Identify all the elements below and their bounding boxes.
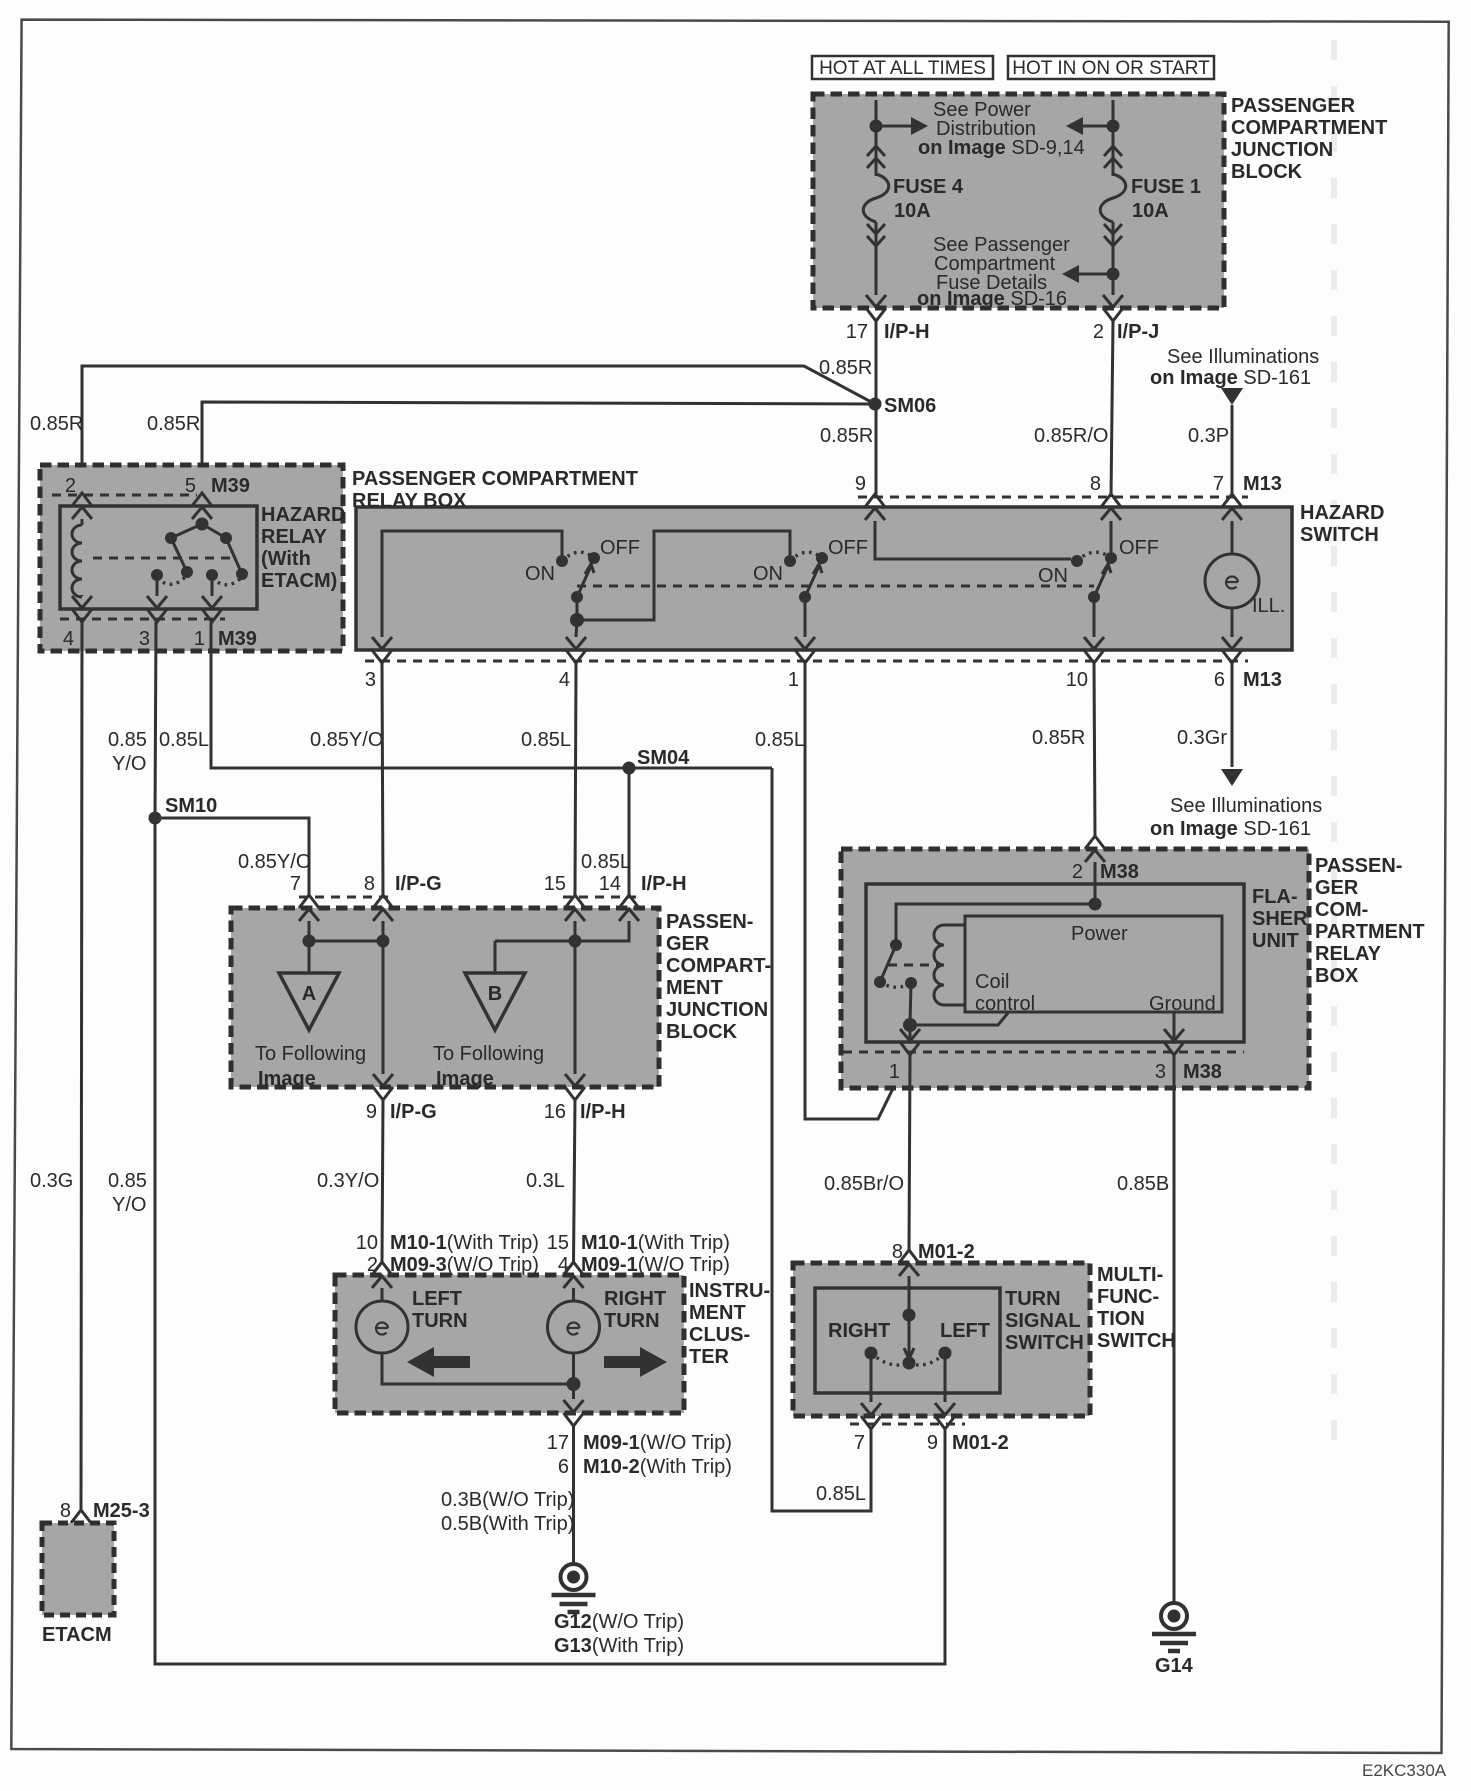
wire I/P-H 16 to cluster (0.3L) <box>574 1100 576 1262</box>
left arrow symbol <box>407 1347 470 1377</box>
jb connector dashed line pins 15-14 <box>563 896 639 899</box>
svg-text:Power: Power <box>1071 923 1128 945</box>
svg-text:I/P-G: I/P-G <box>390 1101 437 1123</box>
tss dotted arc right <box>871 1353 909 1365</box>
sw3 dotted arc <box>1077 552 1111 561</box>
right turn indicator lamp <box>548 1301 600 1353</box>
jb wire pin8 through <box>382 921 385 1074</box>
svg-text:Coil: Coil <box>975 971 1009 993</box>
relay pin 4 connector <box>72 596 92 608</box>
svg-text:LEFT: LEFT <box>412 1288 462 1310</box>
svg-text:0.85: 0.85 <box>108 729 147 751</box>
svg-text:9: 9 <box>366 1101 377 1123</box>
svg-text:on Image SD-161: on Image SD-161 <box>1150 367 1311 389</box>
triangle destination A <box>308 941 311 973</box>
switch mechanical dashed link <box>577 585 1094 588</box>
arrow left to See Power Distribution <box>1080 125 1113 128</box>
label box HOT IN ON OR START <box>1008 56 1214 79</box>
svg-text:0.3G: 0.3G <box>30 1170 73 1192</box>
flasher pin 2 connector <box>1085 836 1105 849</box>
wire fuse4 feed vertical <box>875 100 878 176</box>
svg-text:M10-1(With Trip): M10-1(With Trip) <box>581 1232 730 1254</box>
tss blade <box>908 1315 911 1356</box>
relay pin 3 connector <box>147 596 167 608</box>
relay contact stub left <box>171 524 202 538</box>
wire SM04 to junction block pin 14 <box>628 768 631 895</box>
svg-text:RELAY BOX: RELAY BOX <box>352 490 467 512</box>
wire fuse4 to pin 17 <box>875 222 878 295</box>
relay pin 5 connector <box>192 493 212 506</box>
flasher pin 3 connector <box>1164 1029 1184 1041</box>
wire switch pin6 illumination out (0.3Gr) <box>1231 663 1234 767</box>
svg-text:0.85L: 0.85L <box>581 851 631 873</box>
svg-text:0.85R: 0.85R <box>819 357 872 379</box>
switch pin 10 connector <box>1084 637 1104 649</box>
svg-text:7: 7 <box>290 873 301 895</box>
svg-text:2: 2 <box>1072 861 1083 883</box>
flasher mech dashed link <box>888 964 941 967</box>
jb node bus 7-8 <box>309 940 383 943</box>
svg-text:GER: GER <box>666 933 710 955</box>
svg-text:10: 10 <box>1066 669 1088 691</box>
splice SM10 <box>149 812 162 825</box>
tss pin 9 connector <box>935 1403 955 1415</box>
wire sw1 junction to section2 <box>577 531 790 620</box>
svg-text:HAZARD: HAZARD <box>261 504 345 526</box>
svg-text:BOX: BOX <box>1315 965 1359 987</box>
jb pin 7 connector <box>299 895 319 908</box>
cluster lamp common bus <box>382 1353 574 1384</box>
svg-text:MULTI-: MULTI- <box>1097 1264 1163 1286</box>
svg-text:M13: M13 <box>1243 669 1282 691</box>
svg-text:0.85R: 0.85R <box>30 413 83 435</box>
svg-text:I/P-G: I/P-G <box>395 873 442 895</box>
arrow from illumination feed <box>1221 388 1243 405</box>
svg-text:SM04: SM04 <box>637 747 690 769</box>
flasher unit case <box>866 884 1244 1042</box>
svg-text:10A: 10A <box>1132 200 1169 222</box>
flasher power junction dot <box>1089 898 1102 911</box>
wire cluster to ground G12/G13 <box>572 1426 575 1563</box>
svg-text:1: 1 <box>889 1061 900 1083</box>
jb pin 8 connector <box>373 895 393 908</box>
cluster pin 10/2 connector <box>372 1262 392 1275</box>
wire SM10 long run down and right to multifunction pin 9 <box>155 818 945 1664</box>
passenger compartment junction block (fuse box) <box>813 94 1224 308</box>
svg-text:16: 16 <box>544 1101 566 1123</box>
wire switch pin3 to junction block pin 8 (0.85Y/O) <box>382 663 383 895</box>
svg-text:ETACM): ETACM) <box>261 570 337 592</box>
svg-text:JUNCTION: JUNCTION <box>1231 139 1333 161</box>
ground G12/G13 <box>561 1564 587 1590</box>
svg-text:TER: TER <box>689 1346 730 1368</box>
flasher module box <box>965 916 1222 1012</box>
svg-text:6: 6 <box>1214 669 1225 691</box>
svg-text:0.5B(With Trip): 0.5B(With Trip) <box>441 1513 574 1535</box>
svg-text:1: 1 <box>788 669 799 691</box>
wire switch pin4 to junction block pin 15 (0.85L) <box>575 663 576 895</box>
relay wire contact1 down <box>211 581 214 596</box>
svg-text:Image: Image <box>258 1068 316 1090</box>
fuse F1 connector chevrons top <box>1104 146 1122 156</box>
fuse F4 connector chevrons bottom <box>867 224 885 234</box>
svg-text:0.85R: 0.85R <box>147 413 200 435</box>
jb connector dashed line pins 7-8 <box>299 896 393 899</box>
hazard switch grey box <box>356 507 1292 650</box>
svg-text:10: 10 <box>356 1232 378 1254</box>
svg-text:0.3B(W/O Trip): 0.3B(W/O Trip) <box>441 1489 574 1511</box>
svg-text:M01-2: M01-2 <box>952 1432 1009 1454</box>
svg-text:RELAY: RELAY <box>261 526 328 548</box>
svg-text:CLUS-: CLUS- <box>689 1324 750 1346</box>
svg-text:M10-1(With Trip): M10-1(With Trip) <box>390 1232 539 1254</box>
cluster bus junction dot <box>567 1377 581 1391</box>
svg-text:on Image SD-16: on Image SD-16 <box>917 288 1067 310</box>
connector pin 2 I/P-J at block edge <box>1103 295 1123 307</box>
svg-text:9: 9 <box>927 1432 938 1454</box>
svg-text:PARTMENT: PARTMENT <box>1315 921 1425 943</box>
switch pin 7 connector <box>1222 494 1242 507</box>
svg-text:M38: M38 <box>1100 861 1139 883</box>
relay pin 2 connector <box>72 493 92 506</box>
svg-text:M38: M38 <box>1183 1061 1222 1083</box>
sw1 blade <box>577 566 591 597</box>
wire I/P-G 9 to cluster (0.3Y/O) <box>382 1100 383 1262</box>
svg-text:FUSE 4: FUSE 4 <box>893 176 964 198</box>
svg-text:SWITCH: SWITCH <box>1300 524 1379 546</box>
svg-text:I/P-H: I/P-H <box>641 873 687 895</box>
svg-text:E2KC330A: E2KC330A <box>1362 1761 1447 1780</box>
right turn lamp feed <box>572 1288 575 1301</box>
svg-text:COM-: COM- <box>1315 899 1368 921</box>
wire sw1 junction down to pin 4 <box>576 620 577 637</box>
switch pin 4 connector <box>566 637 586 649</box>
svg-text:M09-1(W/O Trip): M09-1(W/O Trip) <box>583 1432 732 1454</box>
tss pin 8 connector <box>899 1250 919 1263</box>
relay dotted arc left <box>157 575 187 584</box>
splice SM04 <box>623 762 636 775</box>
left turn lamp feed <box>381 1288 384 1301</box>
flasher armature blade <box>880 945 896 982</box>
flasher power rail to contact <box>896 904 1095 945</box>
jb wire pin7 to node <box>308 921 311 941</box>
svg-text:3: 3 <box>1155 1061 1166 1083</box>
svg-text:I/P-H: I/P-H <box>884 321 930 343</box>
svg-text:0.85B: 0.85B <box>1117 1173 1169 1195</box>
svg-text:COMPARTMENT: COMPARTMENT <box>1231 117 1387 139</box>
sw3 OFF contact <box>1105 552 1117 564</box>
svg-text:0.85R: 0.85R <box>820 425 873 447</box>
svg-text:2: 2 <box>65 475 76 497</box>
svg-text:Image: Image <box>436 1068 494 1090</box>
svg-text:8: 8 <box>364 873 375 895</box>
sw3 OFF contact feed from pin 8 <box>1110 521 1113 552</box>
fuse F1 connector chevrons bottom <box>1104 224 1122 234</box>
flasher connector dashed line bottom <box>843 1051 1244 1054</box>
scan artifact streak <box>1331 40 1337 1450</box>
sw1 dotted arc <box>562 552 594 561</box>
svg-text:0.85Y/O: 0.85Y/O <box>238 851 311 873</box>
illumination lamp feed <box>1231 521 1234 555</box>
instrument cluster grey box <box>335 1275 684 1413</box>
svg-text:0.3Y/O: 0.3Y/O <box>317 1170 379 1192</box>
wire relay pin3 down to SM10 <box>155 622 156 818</box>
turn signal switch case <box>815 1288 1000 1393</box>
svg-text:SWITCH: SWITCH <box>1005 1332 1084 1354</box>
svg-text:8: 8 <box>1090 473 1101 495</box>
multifunction switch grey box <box>793 1263 1090 1416</box>
relay common feed <box>201 519 204 524</box>
svg-text:HOT AT ALL TIMES: HOT AT ALL TIMES <box>819 58 986 79</box>
wire I/P-H 17 down to SM06 and hazard switch pin 9 <box>875 321 878 497</box>
wire SM06 branch to hazard relay pin 5 (0.85R) <box>202 402 875 495</box>
svg-text:See Illuminations: See Illuminations <box>1170 795 1322 817</box>
sw3 blade <box>1094 566 1108 597</box>
svg-text:ON: ON <box>1038 565 1068 587</box>
svg-text:5: 5 <box>185 475 196 497</box>
switch pin 8 connector <box>1101 494 1121 507</box>
flasher armature dotted arc <box>880 982 911 987</box>
tss connector dashed line bottom <box>850 1423 965 1426</box>
svg-text:0.85L: 0.85L <box>521 729 571 751</box>
svg-text:10A: 10A <box>894 200 931 222</box>
hazard relay grey box <box>40 465 343 651</box>
fuse F4 element <box>863 174 889 222</box>
tss dotted arc left <box>909 1353 945 1365</box>
sw2 OFF contact <box>816 552 828 564</box>
illumination lamp ILL <box>1205 554 1259 608</box>
svg-text:HAZARD: HAZARD <box>1300 502 1384 524</box>
splice SM06 <box>869 398 882 411</box>
svg-text:MENT: MENT <box>666 977 723 999</box>
svg-text:ON: ON <box>525 563 555 585</box>
svg-text:To Following: To Following <box>255 1043 366 1065</box>
sw1 OFF contact <box>588 552 600 564</box>
svg-text:0.85L: 0.85L <box>816 1483 866 1505</box>
svg-text:INSTRU-: INSTRU- <box>689 1280 770 1302</box>
tss wire right contact down <box>870 1359 873 1402</box>
svg-text:PASSEN-: PASSEN- <box>1315 855 1402 877</box>
junction dot fuse4 top <box>870 120 883 133</box>
relay mech dashed link <box>93 557 232 560</box>
wire SM06 branch to hazard relay pin 2 (0.85R) <box>82 366 875 495</box>
relay dotted arc right <box>212 577 242 585</box>
svg-text:3: 3 <box>139 628 150 650</box>
jb wire pin14 to node <box>495 921 629 941</box>
connector pin 17 I/P-H at block edge <box>866 295 886 307</box>
tss common dot <box>903 1357 916 1370</box>
sw2 dotted arc <box>790 552 822 561</box>
relay throw dot pin1 <box>206 569 218 581</box>
jb pin 15 connector <box>565 895 585 908</box>
flasher ground wire <box>1173 1012 1176 1041</box>
svg-text:LEFT: LEFT <box>940 1320 990 1342</box>
flasher pin 1 connector <box>900 1029 920 1041</box>
tss feed dot <box>903 1309 916 1322</box>
junction dot fuse1 top <box>1107 120 1120 133</box>
wire sw2 pivot down to pin 1 <box>804 597 807 637</box>
wire fuse1 feed vertical <box>1112 100 1115 176</box>
junction dot fuse1 lower <box>1107 268 1120 281</box>
junction block grey box <box>231 908 659 1087</box>
svg-text:0.3P: 0.3P <box>1188 425 1229 447</box>
tss LEFT contact <box>939 1347 952 1360</box>
right arrow symbol <box>604 1347 667 1377</box>
svg-text:Ground: Ground <box>1149 993 1216 1015</box>
hazard relay inner case <box>60 506 257 609</box>
triangle destination B <box>494 941 497 973</box>
svg-text:ILL.: ILL. <box>1252 595 1285 617</box>
svg-text:0.85L: 0.85L <box>159 729 209 751</box>
flasher wire common down <box>909 1025 912 1041</box>
wire fuse1 to pin 2 <box>1112 222 1115 295</box>
svg-text:0.85L: 0.85L <box>755 729 805 751</box>
svg-text:SM10: SM10 <box>165 795 217 817</box>
svg-text:See Illuminations: See Illuminations <box>1167 346 1319 368</box>
svg-text:8: 8 <box>60 1500 71 1522</box>
wire flasher pin3 to ground G14 (0.85B) <box>1173 1055 1176 1602</box>
flasher relay box grey box <box>841 849 1309 1088</box>
switch connector dashed line bottom <box>365 660 1248 663</box>
svg-text:control: control <box>975 993 1035 1015</box>
svg-text:TURN: TURN <box>412 1310 468 1332</box>
relay pin 1 connector <box>202 596 222 608</box>
wire relay pin4 down to ETACM (0.3G) <box>81 622 82 1510</box>
switch section1 feed wire <box>382 531 562 637</box>
svg-text:FLA-: FLA- <box>1252 886 1298 908</box>
svg-text:M13: M13 <box>1243 473 1282 495</box>
sw2 ON contact <box>784 555 796 567</box>
flasher armature riser <box>910 983 911 1025</box>
svg-text:GER: GER <box>1315 877 1359 899</box>
switch pin 3 connector <box>372 637 392 649</box>
flasher common to coil control <box>910 1013 1008 1025</box>
svg-text:OFF: OFF <box>600 537 640 559</box>
svg-text:0.3Gr: 0.3Gr <box>1177 727 1227 749</box>
svg-text:14: 14 <box>599 873 621 895</box>
flasher common junction dot <box>903 1018 917 1032</box>
svg-text:TURN: TURN <box>1005 1288 1061 1310</box>
wire switch pin10 to flasher pin 2 (0.85R) <box>1094 663 1095 836</box>
flasher fixed contact dot <box>890 939 902 951</box>
ground G14 <box>1161 1603 1187 1629</box>
svg-text:JUNCTION: JUNCTION <box>666 999 768 1021</box>
illumination lamp to pin 6 <box>1231 608 1234 637</box>
svg-text:15: 15 <box>544 873 566 895</box>
svg-text:HOT IN ON OR START: HOT IN ON OR START <box>1012 58 1210 79</box>
svg-text:Y/O: Y/O <box>112 1194 146 1216</box>
switch pin 6 connector <box>1222 637 1242 649</box>
jb wire pin15 through <box>574 921 577 1074</box>
wire sw3 pivot down to pin 10 <box>1093 597 1096 637</box>
svg-text:0.85R: 0.85R <box>1032 727 1085 749</box>
arrow left to See Passenger Compartment Fuse Details <box>1076 273 1113 276</box>
svg-text:BLOCK: BLOCK <box>1231 161 1303 183</box>
svg-text:SWITCH: SWITCH <box>1097 1330 1176 1352</box>
svg-text:M01-2: M01-2 <box>918 1241 975 1263</box>
cluster pin 15/4 connector <box>564 1262 584 1275</box>
svg-text:on Image SD-9,14: on Image SD-9,14 <box>918 137 1085 159</box>
tss pin 7 connector <box>861 1403 881 1415</box>
svg-text:ETACM: ETACM <box>42 1624 112 1646</box>
svg-text:on Image SD-161: on Image SD-161 <box>1150 818 1311 840</box>
svg-text:COMPART-: COMPART- <box>666 955 771 977</box>
sw1 junction dot <box>570 613 584 627</box>
svg-text:0.3L: 0.3L <box>526 1170 565 1192</box>
svg-text:RIGHT: RIGHT <box>604 1288 666 1310</box>
left turn indicator lamp <box>356 1301 408 1353</box>
svg-text:0.85Br/O: 0.85Br/O <box>824 1173 904 1195</box>
svg-text:0.85R/O: 0.85R/O <box>1034 425 1108 447</box>
svg-text:G13(With Trip): G13(With Trip) <box>554 1635 684 1657</box>
relay throw dot pin3 <box>151 569 163 581</box>
flasher armature riser dot <box>905 977 917 989</box>
jb junction dot pin8 <box>377 935 390 948</box>
sw2 blade <box>805 566 819 597</box>
right lamp to bus <box>572 1353 575 1384</box>
svg-text:RELAY: RELAY <box>1315 943 1382 965</box>
svg-text:I/P-J: I/P-J <box>1117 321 1159 343</box>
wire I/P-J 2 down to hazard switch pin 8 (0.85R/O) <box>1111 321 1113 497</box>
svg-text:4: 4 <box>559 669 570 691</box>
sw3 ON contact <box>1071 555 1083 567</box>
tss feed wire <box>908 1276 911 1315</box>
svg-text:SIGNAL: SIGNAL <box>1005 1310 1081 1332</box>
svg-text:M39: M39 <box>218 628 257 650</box>
svg-text:1: 1 <box>194 628 205 650</box>
relay coil <box>81 519 84 525</box>
cluster pin 17/6 connector <box>564 1400 584 1412</box>
flasher coil <box>934 925 944 1005</box>
svg-text:To Following: To Following <box>433 1043 544 1065</box>
svg-text:M39: M39 <box>211 475 250 497</box>
svg-text:G12(W/O Trip): G12(W/O Trip) <box>554 1611 684 1633</box>
arrow to illumination (lower) <box>1221 769 1243 786</box>
svg-text:UNIT: UNIT <box>1252 930 1299 952</box>
svg-text:M25-3: M25-3 <box>93 1500 150 1522</box>
svg-text:4: 4 <box>63 628 74 650</box>
jb pin 14 connector <box>619 895 639 908</box>
svg-text:6: 6 <box>558 1456 569 1478</box>
relay blade right <box>226 538 242 574</box>
fuse F1 element <box>1100 174 1126 222</box>
switch pin 9 connector <box>865 494 885 507</box>
svg-text:G14: G14 <box>1155 1655 1194 1677</box>
wire 0.3P to hazard switch pin 7 <box>1231 405 1234 497</box>
fuse F4 connector chevrons top <box>867 146 885 156</box>
svg-text:7: 7 <box>1213 473 1224 495</box>
svg-text:RIGHT: RIGHT <box>828 1320 890 1342</box>
switch connector dashed line top <box>858 496 1248 499</box>
relay connector dashed line bottom <box>60 618 225 621</box>
relay contact stub right <box>202 524 226 538</box>
jb junction dot pin15 <box>569 935 582 948</box>
svg-text:FUSE 1: FUSE 1 <box>1131 176 1201 198</box>
label box HOT AT ALL TIMES <box>812 56 993 79</box>
jb junction dot pin7 <box>303 935 316 948</box>
svg-text:M10-2(With Trip): M10-2(With Trip) <box>583 1456 732 1478</box>
flasher wire pin2 to power node <box>1094 862 1097 904</box>
relay wire to pin 4 <box>81 595 84 598</box>
svg-text:TURN: TURN <box>604 1310 660 1332</box>
relay common junction dot <box>196 518 209 531</box>
cluster bus to pin 17/6 <box>572 1384 575 1399</box>
wire SM04 drop to multifunction switch pin 7 <box>772 768 871 1511</box>
relay connector dashed line top <box>52 494 197 497</box>
svg-text:BLOCK: BLOCK <box>666 1021 738 1043</box>
svg-text:B: B <box>488 983 502 1005</box>
wire SM10 to junction block pin 7 <box>155 818 309 895</box>
